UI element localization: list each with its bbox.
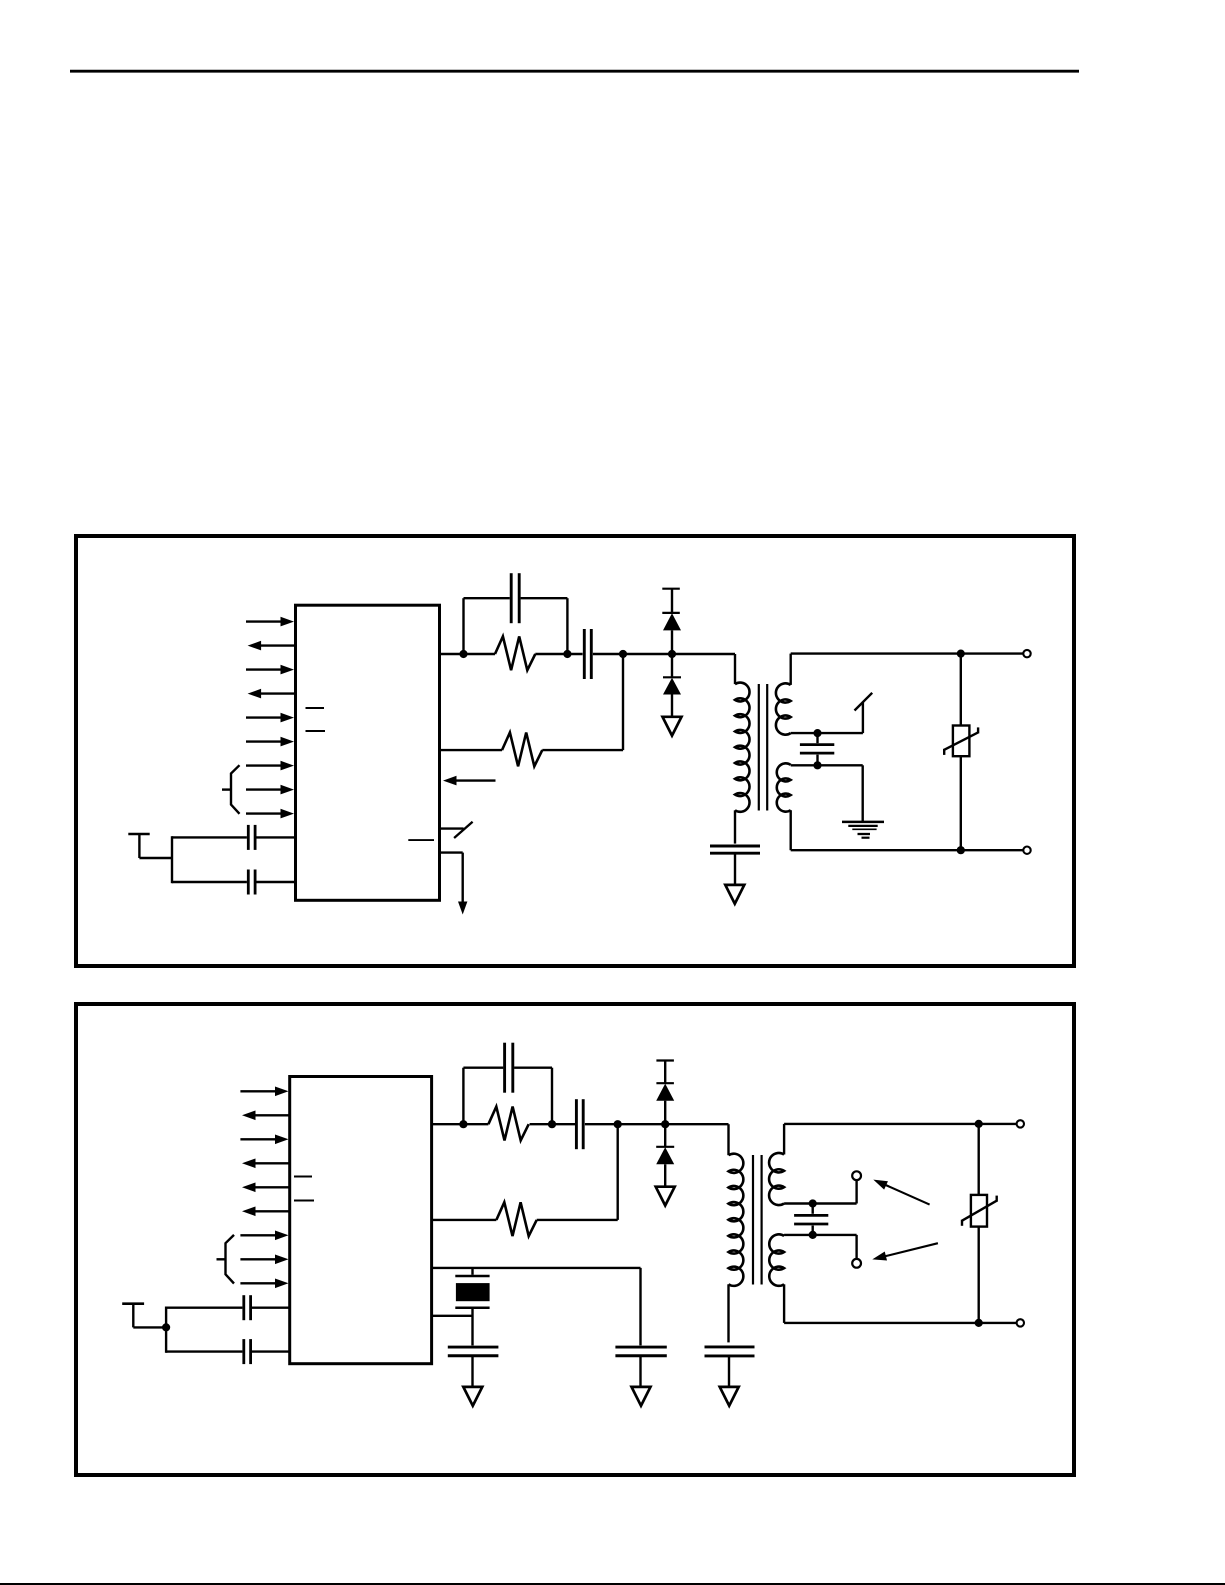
transformer T1 secondary upper winding <box>776 683 791 734</box>
terminal RING2 <box>1017 1319 1024 1326</box>
U2 pin arrow out 5 <box>242 1183 289 1193</box>
capacitor C10 <box>615 1347 666 1356</box>
transformer T2 secondary upper winding <box>769 1153 784 1205</box>
relay contact upper <box>852 1171 861 1203</box>
node C dot <box>619 650 627 658</box>
capacitor C9 <box>448 1347 499 1356</box>
wire crystal bottom stub <box>471 1308 473 1346</box>
wire tap to C3 <box>816 733 818 743</box>
bus brace U2 <box>217 1235 235 1284</box>
wire T2 secondary top <box>784 1124 1017 1155</box>
diode D1 <box>662 613 681 631</box>
crystal Y1 <box>455 1276 489 1308</box>
feedback loop wire <box>464 598 568 654</box>
bus brace U1 <box>222 765 240 814</box>
wire XTAL1 to U1 <box>172 836 295 838</box>
node I dot <box>614 1120 622 1128</box>
wire U2 XTAL2 <box>432 1315 473 1317</box>
transformer T2 primary winding <box>729 1154 744 1286</box>
analog ground arrow 4 <box>632 1387 651 1406</box>
terminal TIP <box>1023 650 1030 657</box>
wire varistor top <box>960 654 962 726</box>
U1 control pin arrow <box>443 776 496 786</box>
wire center tap upper 2 <box>784 1202 857 1204</box>
supply rail bar 2 <box>656 1059 674 1061</box>
U1 reset pin stub <box>440 827 464 829</box>
node G dot <box>459 1120 467 1128</box>
node TIP dot <box>957 650 965 658</box>
node bus XTAL1 wire <box>171 836 173 883</box>
wire line to T1 primary <box>734 654 736 684</box>
footer rule <box>0 1583 1225 1585</box>
wire R1 to C1 <box>535 653 582 655</box>
annotation arrow upper <box>873 1180 929 1205</box>
supply rail bar <box>662 588 680 590</box>
capacitor C6 <box>248 870 255 895</box>
wire C14 to tap <box>812 1226 814 1235</box>
feedback loop wire 2 <box>463 1068 552 1125</box>
wire R4 to node I <box>537 1219 618 1221</box>
diode D2 <box>663 677 681 694</box>
U2 pin arrow in 1 <box>240 1087 288 1097</box>
wire node C down <box>622 654 624 750</box>
figure 2 border frame <box>76 1004 1074 1475</box>
diode D4 <box>656 1147 674 1165</box>
wire C1 to line node <box>593 653 735 655</box>
clock input stub T1 <box>128 834 172 858</box>
wire D1 to node D <box>671 630 673 654</box>
node L dot <box>809 1231 817 1239</box>
U1 pin arrow out 4 <box>248 689 295 699</box>
resistor R1 <box>495 636 535 670</box>
node H dot <box>548 1120 556 1128</box>
resistor R3 <box>488 1107 528 1141</box>
capacitor C7 <box>576 1099 583 1149</box>
figure 1 border frame <box>76 536 1074 966</box>
node F dot <box>813 761 821 769</box>
earth ground <box>842 822 884 838</box>
U2 pin name overbar a <box>294 1176 312 1178</box>
wire T1 secondary bottom <box>791 810 1024 850</box>
U1 pin arrow in 6 <box>246 737 294 747</box>
capacitor C8 <box>505 1043 513 1093</box>
wire center tap lower <box>791 764 863 766</box>
varistor RV1 <box>944 726 978 757</box>
wire line to T2 primary <box>727 1124 729 1155</box>
node K dot <box>809 1199 817 1207</box>
transformer T2 core <box>753 1155 762 1285</box>
wire C10 to ground <box>639 1356 641 1387</box>
node D dot <box>668 650 676 658</box>
node A dot <box>459 650 467 658</box>
capacitor C12 <box>244 1339 251 1364</box>
wire varistor bottom 2 <box>978 1227 980 1323</box>
wire T2 secondary bottom <box>784 1284 1017 1323</box>
resistor R2 <box>502 733 542 767</box>
node TIP2 dot <box>975 1120 983 1128</box>
U1 pin arrow in 8 <box>246 785 294 795</box>
transformer T2 secondary lower winding <box>769 1234 784 1285</box>
node bus dot <box>162 1323 170 1331</box>
capacitor C2 <box>511 573 519 623</box>
U1 pin arrow in 9 <box>246 809 294 819</box>
capacitor C3 <box>800 745 834 754</box>
wire D4 to ground <box>664 1164 666 1187</box>
capacitor C4 <box>710 846 760 853</box>
wire U1 TXA <box>440 653 496 655</box>
U1 pin arrow in 3 <box>246 665 294 675</box>
node RING dot <box>957 846 965 854</box>
node J dot <box>661 1120 669 1128</box>
wire xtal1 branch down <box>639 1268 641 1346</box>
capacitor C5 <box>248 825 255 850</box>
U2 pin arrow out 2 <box>242 1111 289 1121</box>
U2 pin arrow in 3 <box>240 1135 288 1145</box>
resistor R4 <box>496 1202 536 1236</box>
capacitor C11 <box>244 1295 251 1320</box>
wire to U2 xtal b <box>166 1350 289 1352</box>
U2 pin arrow out 4 <box>242 1159 289 1169</box>
reset slash <box>454 822 473 838</box>
wire T1 secondary top <box>791 654 1024 685</box>
node B dot <box>563 650 571 658</box>
wire varistor bottom <box>960 756 962 850</box>
analog ground arrow 2 <box>725 885 744 904</box>
wire C3 to tap <box>816 755 818 766</box>
U1 pin arrow in 1 <box>246 617 294 627</box>
wire to U2 xtal a <box>166 1306 289 1308</box>
U2 pin arrow in 9 <box>240 1279 288 1289</box>
wire rail to D3 <box>664 1061 666 1084</box>
terminal RING <box>1023 847 1030 854</box>
wire U2 RXA <box>432 1219 497 1221</box>
analog ground arrow 3 <box>463 1387 482 1406</box>
wire T2 primary to C13 <box>727 1284 729 1342</box>
capacitor C14 <box>794 1215 828 1224</box>
node RING2 dot <box>975 1319 983 1327</box>
U1 pin name overbar a <box>306 707 325 709</box>
relay contact lower <box>852 1235 861 1268</box>
wire D2 to ground <box>671 695 673 718</box>
wire rail to D1 <box>671 589 673 613</box>
node E dot <box>813 729 821 737</box>
U1 pin name overbar b <box>306 730 326 732</box>
U2 pin arrow in 8 <box>240 1255 288 1265</box>
wire XTAL2 to U1 <box>172 881 295 883</box>
transformer T1 primary winding <box>735 683 750 812</box>
annotation arrow lower <box>872 1243 938 1260</box>
U2 pin arrow in 7 <box>240 1231 288 1241</box>
analog ground arrow 5 <box>656 1187 675 1206</box>
wire node J to D4 <box>664 1124 666 1147</box>
wire to earth ground <box>862 765 864 822</box>
analog ground arrow 1 <box>663 717 682 736</box>
analog ground arrow 6 <box>720 1387 739 1406</box>
capacitor C1 <box>584 629 591 679</box>
U2 pin arrow out 6 <box>242 1207 289 1217</box>
wire D3 to node J <box>664 1101 666 1125</box>
wire varistor top 2 <box>978 1124 980 1195</box>
U1 pin arrow in 5 <box>246 713 294 723</box>
hook switch SW1 <box>855 693 873 733</box>
wire U2 TXA <box>432 1123 489 1125</box>
wire U2 XTAL1 <box>432 1267 641 1269</box>
modem IC U2 <box>290 1077 432 1364</box>
transformer T1 secondary lower winding <box>777 763 791 811</box>
varistor RV2 <box>962 1195 997 1227</box>
diode D3 <box>656 1083 674 1101</box>
wire crystal top stub <box>471 1268 473 1275</box>
U1 output pin down arrow <box>440 853 468 915</box>
transformer T1 core <box>759 684 767 811</box>
capacitor C13 <box>705 1347 755 1356</box>
wire C9 to ground <box>471 1356 473 1387</box>
modem IC U1 <box>296 605 440 900</box>
U1 pin name overbar c <box>408 839 434 841</box>
wire R2 to node C <box>542 749 623 751</box>
header rule <box>70 70 1079 73</box>
clock input stub T2 <box>122 1304 166 1328</box>
wire node I down <box>617 1124 619 1220</box>
wire T1 primary to C4 <box>734 810 736 843</box>
node bus wire 2 <box>165 1307 167 1353</box>
U1 pin arrow out 2 <box>248 641 295 651</box>
wire C7 to line node 2 <box>585 1123 729 1125</box>
wire center tap upper <box>791 732 863 734</box>
U2 pin name overbar b <box>294 1200 314 1202</box>
wire C4 to ground <box>734 853 736 885</box>
terminal TIP2 <box>1017 1120 1024 1127</box>
wire node D to D2 <box>671 654 673 677</box>
wire C13 to ground <box>728 1356 730 1387</box>
wire U1 RXA <box>440 749 503 751</box>
U1 pin arrow in 7 <box>246 761 294 771</box>
wire tap to C14 <box>812 1204 814 1214</box>
wire R3 to C7 <box>530 1123 575 1125</box>
wire center tap lower 2 <box>784 1234 857 1236</box>
